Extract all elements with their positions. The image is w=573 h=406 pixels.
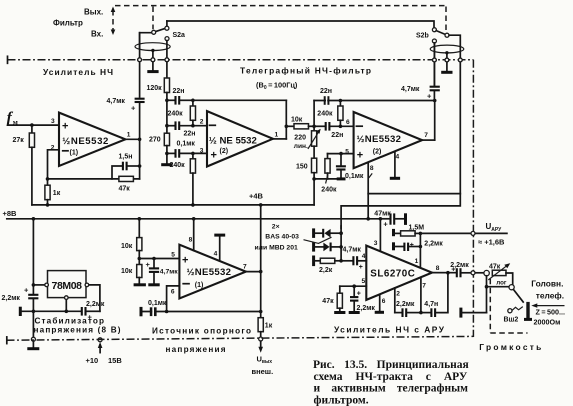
resistor 150 [296, 146, 317, 205]
svg-text:240к: 240к [168, 111, 184, 118]
svg-text:7: 7 [243, 264, 247, 271]
wire feedback stage2 [193, 100, 288, 139]
wire +8V rail [3, 209, 383, 221]
amplifier SL6270C [366, 246, 432, 300]
wire stab common run [20, 307, 80, 316]
section label Телеграфный НЧ-фильтр [240, 66, 371, 76]
svg-text:+: + [383, 220, 388, 229]
label Громкость [479, 342, 541, 352]
jack Вш2 sleeve contact [504, 307, 523, 324]
wire pot to jack tip [506, 273, 514, 290]
svg-text:120к: 120к [147, 85, 163, 92]
svg-text:Вых.: Вых. [84, 8, 103, 17]
ground cable left [147, 70, 158, 73]
label fm input [7, 110, 18, 127]
svg-text:Вш2: Вш2 [504, 316, 519, 323]
caption line 3 [314, 383, 469, 395]
svg-text:4,7н: 4,7н [424, 301, 438, 308]
svg-text:телеф.: телеф. [536, 291, 564, 301]
wire pin4 op3 ground [390, 152, 400, 179]
svg-text:5: 5 [171, 252, 175, 259]
svg-text:Усилитель НЧ с АРУ: Усилитель НЧ с АРУ [334, 325, 445, 335]
resistor 1.5М [394, 225, 425, 237]
svg-text:2×: 2× [272, 224, 280, 231]
boundary bottom dash-dot [7, 336, 474, 343]
svg-text:150: 150 [296, 164, 308, 171]
caption line 1 [313, 359, 469, 371]
diode D2 BAS40-03 lower [314, 242, 342, 252]
svg-text:Источник опорного: Источник опорного [152, 326, 251, 335]
svg-text:+10: +10 [86, 356, 99, 365]
wire stabilizer output column [32, 219, 36, 294]
wire pin1 SL agc node [415, 233, 421, 267]
connector circle output boundary [471, 271, 484, 275]
svg-text:7: 7 [424, 132, 428, 139]
svg-text:8: 8 [370, 165, 374, 172]
section label Стабилизатор напряжения [34, 315, 121, 334]
capacitor 22н c [320, 88, 332, 105]
capacitor 0.1мк a [167, 140, 207, 157]
trimmer 220 лин [294, 126, 321, 150]
svg-text:6: 6 [346, 119, 350, 126]
svg-text:(1): (1) [195, 282, 204, 289]
svg-text:SL6270C: SL6270C [370, 268, 415, 279]
svg-text:2: 2 [200, 118, 204, 125]
svg-text:5: 5 [345, 149, 349, 156]
label Вых. [84, 8, 103, 17]
ground inverted pin4 ref [214, 235, 225, 261]
op-amp 1/2 NE5532 (2) stage2 [200, 111, 279, 166]
svg-text:2: 2 [396, 291, 400, 298]
svg-text:Вх.: Вх. [91, 30, 103, 39]
svg-text:1: 1 [275, 131, 279, 138]
svg-text:47к: 47к [322, 298, 334, 305]
svg-text:1: 1 [127, 131, 131, 138]
resistor 47к SL [322, 286, 345, 312]
svg-text:240к: 240к [317, 111, 333, 118]
wire S2a to S2b [167, 21, 434, 28]
svg-text:2,2мк: 2,2мк [450, 262, 469, 269]
svg-text:лог: лог [496, 279, 507, 286]
svg-text:½ NE 5532: ½ NE 5532 [209, 136, 257, 147]
capacitor 4.7мк top right [401, 43, 440, 101]
capacitor 22н a [167, 88, 195, 105]
connector circle agc boundary [471, 231, 475, 235]
label Головн. телеф. [531, 279, 564, 301]
wire feedback stage3 [314, 99, 436, 127]
resistor 10к lower [121, 265, 146, 285]
wire ref output node [246, 205, 263, 318]
potentiometer 47к лог [484, 263, 510, 286]
switch S2a [140, 21, 185, 48]
resistor 10к upper [121, 219, 142, 265]
op-amp 1/2 NE5532 (2) stage3 [345, 112, 428, 172]
svg-text:4,7мк: 4,7мк [160, 268, 178, 275]
resistor 240к d [317, 101, 343, 127]
resistor 2.2к [314, 256, 342, 274]
svg-text:+: + [357, 149, 363, 161]
section label Усилитель НЧ [43, 67, 113, 77]
svg-text:2,2мк: 2,2мк [2, 295, 21, 302]
wire pot ground leg [485, 276, 509, 313]
svg-text:8: 8 [189, 237, 193, 244]
ground cable right [441, 71, 452, 74]
overlay connector circles boundary top [138, 58, 462, 62]
resistor 1к stage1 [45, 179, 61, 205]
svg-text:+4В: +4В [249, 192, 264, 201]
resistor 27к [13, 125, 35, 205]
svg-text:47к: 47к [119, 185, 131, 192]
svg-text:10к: 10к [121, 243, 133, 250]
jack Вш2 tip contact [513, 289, 523, 302]
svg-text:4,7мк: 4,7мк [343, 246, 362, 253]
wire pin7 SL [421, 277, 426, 312]
switch S2b [416, 28, 460, 194]
svg-text:(1): (1) [70, 150, 79, 157]
label B0=100Гц [256, 81, 298, 92]
svg-text:10к: 10к [291, 116, 303, 123]
svg-text:3: 3 [200, 147, 204, 154]
capacitor 2.2мк pin5 [349, 286, 376, 312]
wire pin5 SL [340, 278, 367, 288]
svg-text:78M08: 78M08 [52, 280, 83, 292]
capacitor 4.7мк input SL [341, 246, 366, 270]
cable oval left [135, 41, 170, 78]
op-amp 1/2 NE5532 (1) stage1 [51, 113, 131, 166]
svg-text:10к: 10к [121, 268, 133, 275]
svg-text:4: 4 [214, 251, 218, 258]
resistor 120к [147, 78, 170, 93]
wire pin6 SL ground [375, 294, 386, 312]
svg-text:27к: 27к [13, 137, 25, 144]
capacitor 22н d [314, 122, 354, 139]
wire U_ARU out [420, 232, 507, 234]
capacitor 4.7мк ref [146, 259, 179, 285]
svg-text:240к: 240к [321, 186, 337, 193]
svg-text:Усилитель НЧ: Усилитель НЧ [43, 67, 113, 77]
boundary connector circles S2a [138, 58, 169, 62]
capacitor 1.5н feedback [112, 153, 141, 179]
svg-text:4,7мк: 4,7мк [401, 86, 420, 93]
svg-text:4: 4 [362, 253, 366, 260]
svg-text:(B0 = 100Гц): (B0 = 100Гц) [256, 81, 298, 92]
svg-text:+8В: +8В [3, 209, 18, 218]
svg-text:Фильтр: Фильтр [53, 19, 83, 28]
svg-text:+: + [182, 254, 188, 266]
wire pin3 SL to rail [374, 219, 381, 251]
svg-text:BAS 40-03: BAS 40-03 [265, 234, 299, 241]
svg-text:(2): (2) [220, 148, 229, 155]
section boundary top dash-dot [8, 56, 474, 63]
resistor 240к a [168, 100, 196, 125]
capacitor 4.7н pin7 [421, 273, 448, 317]
wire output op1 node [125, 103, 141, 179]
svg-text:1,5М: 1,5М [409, 225, 425, 232]
svg-text:+: + [359, 264, 363, 271]
dashed outline volume group [490, 279, 527, 333]
wire diode column [339, 226, 343, 263]
dashed double arrow filter in/out [111, 7, 116, 36]
svg-text:+: + [357, 291, 361, 298]
svg-text:Громкость: Громкость [479, 342, 541, 352]
wire feedback op1 [46, 177, 140, 181]
svg-text:5: 5 [362, 278, 366, 285]
resistor 270 [149, 133, 170, 163]
caption line 2 [314, 371, 468, 383]
svg-text:Стабилизатор: Стабилизатор [35, 315, 105, 325]
capacitor 47мк rail decoupling [374, 210, 405, 228]
svg-text:+: + [211, 150, 217, 162]
wire output op3 [422, 101, 435, 141]
label 2x BAS40-03 или MBD201 [255, 224, 332, 252]
capacitor 2.2мк output [450, 262, 471, 278]
capacitor 4.7мк coupling stage1 [107, 33, 145, 113]
svg-text:3: 3 [51, 118, 55, 125]
svg-text:Рис. 13.5. Принципиальная: Рис. 13.5. Принципиальная [313, 359, 469, 371]
arrow Uвых внеш [252, 341, 274, 376]
svg-text:4: 4 [396, 154, 400, 161]
svg-text:½NE5532: ½NE5532 [357, 134, 402, 145]
caption line 4 [314, 394, 369, 406]
ground stab boundary [27, 337, 39, 349]
svg-text:+: + [427, 91, 432, 100]
svg-text:6: 6 [382, 298, 386, 305]
svg-text:UАРУ: UАРУ [486, 222, 503, 233]
svg-text:47мк: 47мк [374, 210, 391, 217]
svg-text:+: + [24, 285, 29, 294]
svg-text:или MBD 201: или MBD 201 [255, 245, 298, 252]
svg-text:1,5н: 1,5н [119, 153, 133, 160]
svg-text:½NE5532: ½NE5532 [62, 136, 108, 147]
wire output SL [432, 265, 456, 274]
svg-text:S2b: S2b [416, 33, 429, 40]
wire pin5 ref [139, 257, 179, 261]
svg-text:Uвых: Uвых [257, 354, 273, 365]
wire +4V rail [32, 192, 314, 207]
resistor 1к ref out [258, 318, 273, 341]
svg-text:220: 220 [294, 134, 306, 141]
svg-text:47к: 47к [489, 264, 501, 271]
svg-text:2,2мк: 2,2мк [357, 305, 376, 312]
svg-text:4,7мк: 4,7мк [107, 98, 126, 105]
svg-text:22н: 22н [320, 88, 332, 95]
resistor 240к b [170, 153, 196, 205]
wire ref feedback bottom [141, 310, 262, 314]
wire node below 150 [314, 178, 341, 180]
svg-text:и активным телеграфным: и активным телеграфным [314, 383, 469, 395]
resistor 10к [286, 116, 316, 129]
regulator 78M08 [33, 271, 100, 314]
resistor 47к feedback [119, 176, 134, 192]
dashed bypass wire top [115, 6, 446, 32]
svg-text:22н: 22н [184, 130, 196, 137]
svg-text:S2a: S2a [173, 32, 186, 39]
svg-text:22н: 22н [173, 88, 185, 95]
svg-text:Телеграфный НЧ-фильтр: Телеграфный НЧ-фильтр [240, 66, 371, 76]
svg-text:(2): (2) [373, 149, 382, 156]
svg-text:0,1мк: 0,1мк [345, 173, 364, 180]
cable oval right [430, 43, 464, 85]
svg-text:15В: 15В [108, 356, 122, 365]
svg-text:фильтром.: фильтром. [314, 394, 369, 406]
input +10..15В [86, 338, 123, 365]
svg-text:Головн.: Головн. [531, 279, 563, 289]
svg-text:2,2мк: 2,2мк [424, 240, 443, 247]
section label Источник опорного напряжения [152, 326, 251, 354]
svg-text:2,2мк: 2,2мк [86, 301, 105, 308]
svg-text:0,1мк: 0,1мк [177, 140, 196, 147]
svg-text:напряжения: напряжения [166, 345, 226, 354]
wire pin8 ref to rail [193, 219, 195, 251]
wire input fm [8, 123, 59, 127]
wire pin8 op3 to rail [366, 162, 370, 220]
svg-text:+: + [410, 242, 414, 249]
capacitor 2.2мк stab out [2, 285, 39, 337]
section label Усилитель НЧ с АРУ [334, 325, 445, 335]
label Фильтр [53, 19, 83, 28]
svg-text:8: 8 [436, 265, 440, 272]
capacitor 0.1мк b [336, 154, 372, 180]
svg-text:7: 7 [422, 283, 426, 290]
svg-text:1к: 1к [265, 322, 273, 329]
svg-text:1к: 1к [53, 190, 61, 197]
capacitor 22н b [167, 121, 207, 137]
svg-text:1: 1 [415, 258, 419, 265]
capacitor 2.2мк stab in [82, 301, 105, 322]
svg-text:22н: 22н [331, 132, 343, 139]
svg-text:лин.: лин. [294, 143, 308, 150]
svg-text:0,1мк: 0,1мк [148, 300, 167, 307]
op-amp 1/2 NE5532 (1) reference [171, 237, 247, 299]
svg-text:Z = 500...: Z = 500... [536, 308, 565, 317]
wire pin5 op3 [328, 152, 354, 156]
svg-text:240к: 240к [170, 162, 186, 169]
svg-text:≈ +1,6В: ≈ +1,6В [478, 237, 505, 246]
wire filter column stage2 [165, 93, 169, 134]
capacitor 0.1мк ref [141, 300, 167, 317]
svg-text:3: 3 [374, 240, 378, 247]
boundary connector circles S2b [433, 58, 463, 62]
svg-text:2000Ом: 2000Ом [534, 318, 561, 327]
wire pin2 op1 [48, 150, 60, 179]
plug symbol headphones [524, 302, 532, 320]
label Вх. [91, 30, 103, 39]
svg-text:2,2мк: 2,2мк [396, 301, 415, 308]
svg-text:+: + [146, 260, 151, 269]
svg-text:½NE5532: ½NE5532 [187, 267, 232, 278]
svg-text:напряжения (8 В): напряжения (8 В) [34, 325, 121, 334]
wire ground return jack [461, 308, 487, 318]
svg-text:6: 6 [171, 288, 175, 295]
capacitor 2.2мк pin2 [395, 301, 423, 317]
ground stage2 column [161, 163, 172, 166]
boundary vertical dash-dot right [472, 60, 474, 337]
label U_ARU [478, 222, 505, 246]
arrow impedance [531, 303, 565, 326]
svg-text:270: 270 [149, 136, 161, 143]
svg-text:схема НЧ-тракта с АРУ: схема НЧ-тракта с АРУ [314, 371, 468, 383]
wire AGC input loop [341, 194, 460, 229]
svg-text:+: + [131, 104, 136, 113]
wire pin6 ref [167, 286, 180, 312]
svg-text:2,2к: 2,2к [319, 267, 333, 274]
svg-text:внеш.: внеш. [252, 367, 274, 376]
resistor 240к c [321, 154, 337, 194]
diode D1 BAS40-03 upper [314, 228, 342, 238]
wire pin2 SL [395, 288, 401, 313]
svg-text:+: + [62, 121, 68, 133]
capacitor 2.2мк agc [394, 240, 444, 251]
